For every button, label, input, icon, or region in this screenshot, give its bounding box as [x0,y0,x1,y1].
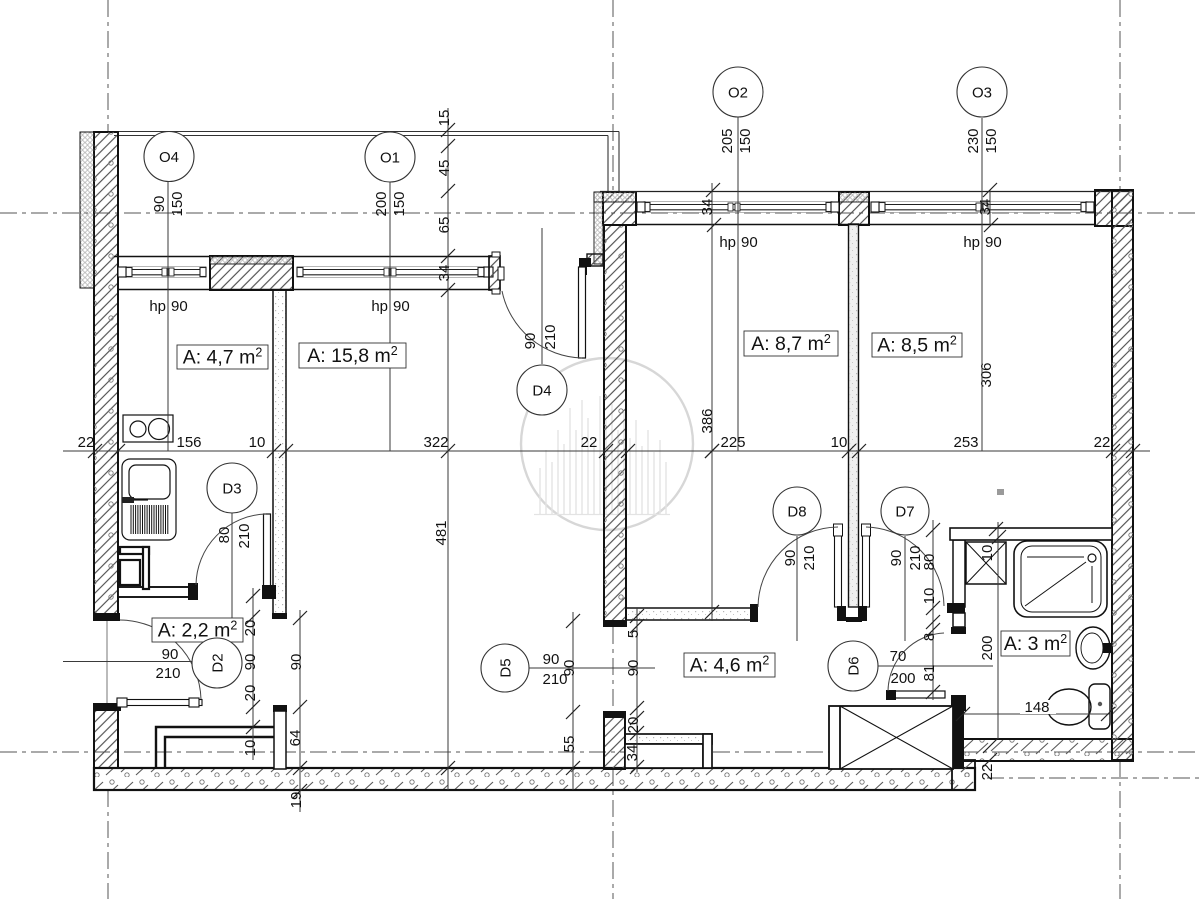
svg-text:22: 22 [581,434,598,451]
dimension chain vertical right rooms [711,183,713,621]
svg-text:306: 306 [978,362,995,387]
wall corridor end cap [603,620,627,627]
door D4 leaf [579,258,591,267]
wall corridor stub cap [603,711,626,718]
dimension chain x300 [299,610,301,812]
leader O1 [389,182,391,451]
svg-text:200: 200 [979,635,996,660]
window bubble O4 [144,132,194,182]
wall closet top [118,587,191,597]
svg-text:90: 90 [393,298,410,315]
svg-text:D5: D5 [498,658,515,677]
window bubble O2 [713,67,763,117]
svg-text:22: 22 [1094,434,1111,451]
kitchen sink drainer [131,505,168,534]
svg-text:10: 10 [249,434,266,451]
wall kitchen partition [273,290,286,617]
svg-text:90: 90 [522,333,539,350]
svg-text:10: 10 [831,434,848,451]
svg-text:65: 65 [436,217,453,234]
svg-text:O3: O3 [972,85,992,102]
dimension 34 window O3 [989,190,991,225]
wall left exterior lower [94,704,118,768]
svg-text:90: 90 [741,234,758,251]
door bubble D3 [207,463,257,513]
svg-text:D2: D2 [210,653,227,672]
svg-text:90: 90 [985,234,1002,251]
svg-text:A: 8,5 m2: A: 8,5 m2 [877,334,957,357]
leader D7 [904,536,906,641]
bathroom toilet [1047,684,1110,729]
svg-text:210: 210 [236,523,253,548]
svg-text:200: 200 [890,670,915,687]
leader D3 [231,513,233,625]
door D6 swing arc [888,633,944,691]
door D6 jamb bottom [951,695,966,711]
window O2 jamb left [637,202,645,212]
svg-text:205: 205 [719,128,736,153]
dimension 34 window O2 [706,183,721,232]
door D2 swing arc [120,620,201,699]
window O4 jamb left [118,267,126,277]
door D6 leaf [888,691,945,698]
svg-text:210: 210 [542,324,559,349]
door bubble D5 [481,644,529,692]
room label A 15,8 [299,343,406,368]
bathroom washbasin [1076,627,1112,669]
wall left insulation strip [80,132,94,288]
window O1 glazing [297,267,484,278]
wall stub bathroom south-west [952,711,964,769]
svg-text:253: 253 [953,434,978,451]
window band right bottom edge [636,224,1095,226]
window O2 glazing [644,202,832,213]
svg-text:A: 3 m2: A: 3 m2 [1004,632,1067,655]
svg-text:90: 90 [162,646,179,663]
wall low partition hallway a [625,734,712,744]
svg-text:20: 20 [242,620,259,637]
svg-text:O4: O4 [159,149,179,166]
door D4 corner jamb [581,267,587,275]
window O4 glazing [126,267,206,278]
door D7 jamb bottom [947,603,965,613]
door D8 jamb left [750,604,758,622]
window O3 glazing [879,202,1087,213]
axis line horizontal C [987,777,1200,779]
svg-text:210: 210 [801,545,818,570]
room label A 3 [1001,631,1070,656]
socket symbol [997,489,1004,495]
door D7 swing arc [866,527,944,606]
hallway wardrobe crossed box [829,706,953,769]
svg-text:64: 64 [287,730,304,747]
svg-text:148: 148 [1024,699,1049,716]
svg-text:90: 90 [151,196,168,213]
door D6 jamb top [951,627,966,634]
svg-text:90: 90 [288,654,305,671]
door D7 leaf [863,526,870,607]
svg-text:10: 10 [242,740,259,757]
kitchen counter [120,547,149,589]
dimension 148 bathroom [963,713,1110,715]
svg-text:A: 4,7 m2: A: 4,7 m2 [183,346,263,369]
window O1 jamb right [484,267,493,277]
svg-text:230: 230 [965,128,982,153]
wall bottom band main [94,768,975,790]
window band left top edge [114,256,500,258]
wall pier between O2 and O3 [839,192,869,225]
svg-text:A: 8,7 m2: A: 8,7 m2 [751,332,831,355]
door bubble D2 [192,638,242,688]
svg-text:34: 34 [977,199,994,216]
window O3 jamb right [1086,202,1094,212]
svg-text:22: 22 [78,434,95,451]
leader D8 [796,536,798,641]
door D8 swing arc [758,527,838,607]
svg-text:hp: hp [149,298,166,315]
wall bedroom1 bottom [626,608,757,620]
door bubble D8 [773,487,821,535]
door D4 swing arc [502,291,582,358]
window O3 jamb left [871,202,879,212]
leader O3 [981,118,983,451]
bathroom shaft crossed [966,542,1006,584]
svg-text:D7: D7 [895,504,914,521]
svg-text:70: 70 [890,648,907,665]
wall bathroom west [953,540,965,607]
kitchen sink unit [122,459,176,540]
svg-text:150: 150 [737,128,754,153]
wall between bedrooms end cap [846,617,862,622]
svg-text:80: 80 [216,527,233,544]
svg-text:210: 210 [155,665,180,682]
wall right exterior [1112,190,1133,760]
leader D4 [541,228,543,364]
svg-text:150: 150 [169,191,186,216]
watermark logo circle [521,358,693,530]
room label A 2,2 [152,618,243,642]
svg-text:90: 90 [625,660,642,677]
svg-text:386: 386 [699,408,716,433]
svg-text:225: 225 [720,434,745,451]
svg-text:90: 90 [543,651,560,668]
svg-text:90: 90 [171,298,188,315]
leader O2 [737,117,739,451]
leader O4 [167,181,169,451]
svg-text:D4: D4 [532,383,551,400]
svg-text:20: 20 [625,717,642,734]
wall kitchen partition cap [272,613,287,619]
window O2 jamb right [831,202,839,212]
svg-text:10: 10 [921,588,938,605]
closet wardrobe [156,727,274,768]
svg-text:322: 322 [423,434,448,451]
svg-text:20: 20 [242,685,259,702]
dimension 200 bathroom [997,522,999,739]
svg-text:481: 481 [433,520,450,545]
svg-text:80: 80 [921,554,938,571]
wall corridor corner foot [587,254,603,266]
dimension chain x637 [636,608,638,772]
svg-text:D6: D6 [846,656,863,675]
wall bottom band right step [952,760,975,790]
balcony outline [114,132,619,193]
dimension chain x253 [252,588,254,760]
wall left exterior upper [94,132,118,615]
svg-text:A: 4,6 m2: A: 4,6 m2 [690,654,770,677]
svg-text:150: 150 [983,128,1000,153]
dimension line horizontal main [63,450,1150,452]
axis line horizontal A [0,212,1200,214]
kitchen cooktop [123,415,173,442]
svg-text:45: 45 [436,160,453,177]
svg-text:8: 8 [921,633,938,641]
door bubble D6 [828,641,878,691]
dimension chain x573 [572,612,574,790]
bathroom shower tray [1014,541,1107,617]
svg-text:O1: O1 [380,150,400,167]
watermark skyline [534,396,670,515]
wall low partition hallway c [703,734,712,768]
wall low partition hallway b [625,744,703,768]
wall bottom band bathroom [952,739,1133,761]
leader D5 [529,667,655,669]
wall closet stub right [273,705,287,712]
door D2 leaf [117,700,202,706]
svg-text:D8: D8 [787,504,806,521]
room label A 8,5 [872,333,962,357]
room label A 4,7 [177,345,268,369]
wall left end cap upper [93,613,120,621]
room label A 4,6 [684,653,775,677]
wall top right apartment edge [600,191,1133,193]
svg-text:34: 34 [699,199,716,216]
svg-text:hp: hp [371,298,388,315]
svg-text:hp: hp [719,234,736,251]
wall between bedrooms [849,224,859,607]
axis line vertical 1 [107,0,109,132]
wall bathroom west piece [953,613,965,627]
axis line vertical 2 [612,0,614,190]
svg-text:O2: O2 [728,85,748,102]
wall left end cap lower [94,704,121,711]
dimension chain x933 [932,520,934,700]
window bubble O1 [365,132,415,182]
wall corridor top corner [603,192,636,225]
door D3 swing arc [196,514,266,585]
svg-text:90: 90 [242,654,259,671]
dimension chain vertical left [447,108,449,790]
svg-text:A: 15,8 m2: A: 15,8 m2 [307,344,397,367]
window pier left apartment [210,256,293,290]
leader D6 [878,665,993,667]
svg-text:200: 200 [373,191,390,216]
wall corridor corner insulation [594,192,603,264]
svg-text:D3: D3 [222,481,241,498]
svg-text:55: 55 [561,736,578,753]
svg-text:90: 90 [888,550,905,567]
svg-text:10: 10 [979,545,996,562]
svg-text:5: 5 [625,630,642,638]
wall corridor vertical [604,225,626,625]
svg-text:15: 15 [436,110,453,127]
svg-text:90: 90 [782,550,799,567]
svg-text:22: 22 [979,764,996,781]
axis line horizontal B [0,751,1200,753]
window band left bottom edge [118,289,500,291]
leader D2 [63,661,192,663]
svg-text:hp: hp [963,234,980,251]
window bubble O3 [957,67,1007,117]
wall bathroom north [950,528,1112,540]
svg-text:34: 34 [624,745,641,762]
wall corridor stub lower [604,713,625,769]
door D3 jamb left [188,583,198,600]
door bubble D7 [881,487,929,535]
door D8 leaf [835,526,842,607]
svg-text:81: 81 [921,665,938,682]
door bubble D4 [517,365,567,415]
axis line vertical 3 [1119,0,1121,190]
door D3 leaf [264,514,271,587]
door D4 jamb left [489,256,500,290]
svg-text:19: 19 [288,792,305,809]
svg-text:34: 34 [436,265,453,282]
svg-text:A: 2,2 m2: A: 2,2 m2 [158,619,238,642]
svg-text:156: 156 [176,434,201,451]
svg-text:150: 150 [391,191,408,216]
room label A 8,7 [744,331,838,356]
svg-text:90: 90 [561,660,578,677]
wall top right corner [1095,190,1133,226]
